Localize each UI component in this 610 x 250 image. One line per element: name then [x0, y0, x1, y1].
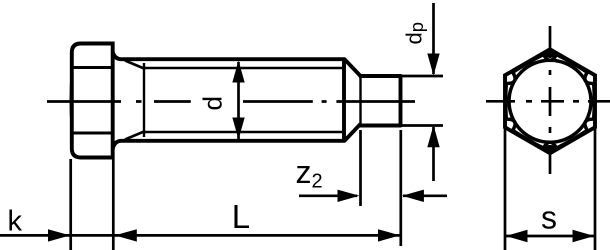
dp extension line bottom — [402, 124, 443, 127]
s arrow right-pointing — [573, 230, 595, 242]
dog point bottom line — [359, 124, 402, 128]
fillet head to shank bottom / outer line bottom — [113, 141, 345, 149]
head facet line lower — [72, 132, 113, 135]
svg-text:L: L — [232, 198, 250, 235]
hex view horizontal center line — [486, 100, 610, 103]
z2 dimension shaft left — [299, 194, 357, 197]
L arrow right-pointing — [378, 229, 400, 241]
dp extension line top — [402, 75, 443, 78]
dp dimension line upper — [432, 3, 435, 74]
dp dimension line lower — [432, 127, 435, 181]
k extension line right — [112, 159, 115, 250]
dog point junction vertical — [359, 76, 361, 126]
label dp — [402, 22, 428, 45]
hex head side view outline — [72, 44, 113, 158]
svg-text:dp: dp — [402, 22, 428, 45]
thread root line bottom — [144, 131, 344, 133]
dp arrow down — [427, 54, 439, 76]
L arrow left-pointing — [115, 229, 137, 241]
head middle facet arc — [71, 68, 72, 134]
svg-text:d: d — [197, 96, 227, 110]
z2 dimension shaft right — [403, 194, 447, 197]
s dimension line — [506, 235, 594, 238]
thread runout diagonal bottom — [125, 132, 144, 140]
s arrow left-pointing — [506, 230, 528, 242]
svg-text:s: s — [541, 199, 557, 235]
thread runout diagonal top — [125, 61, 144, 69]
hex view vertical center line — [549, 26, 552, 174]
k arrow right-pointing — [48, 229, 70, 241]
dog point top line — [359, 74, 402, 78]
thread end vertical — [342, 58, 346, 143]
head facet line upper — [72, 66, 113, 69]
fillet head to shank top — [113, 52, 345, 59]
z2 / L extension line right — [399, 130, 402, 246]
s extension line right — [594, 128, 597, 250]
s extension line left — [504, 128, 507, 250]
chamfer wavy ring — [506, 55, 595, 149]
hexagon end view — [505, 49, 595, 153]
thread start vertical — [143, 63, 145, 137]
dp arrow up — [427, 125, 439, 147]
svg-text:k: k — [8, 206, 23, 238]
bolt end vertical — [399, 75, 403, 128]
hex top vertex cap — [543, 49, 557, 57]
main center line — [47, 100, 415, 103]
head upper facet arc — [70, 55, 73, 68]
d dimension arrow down — [232, 118, 244, 140]
thread root line top — [144, 67, 344, 69]
taper to dog point bottom — [345, 124, 361, 141]
chamfer circle — [509, 60, 591, 142]
k extension line left — [69, 159, 72, 250]
z2 arrow left-pointing — [402, 190, 424, 202]
k/L dimension line — [0, 234, 400, 237]
taper to dog point top — [345, 59, 361, 76]
d dimension line — [237, 62, 240, 139]
hex bottom vertex cap — [543, 145, 557, 153]
d dimension arrow up — [232, 61, 244, 83]
z2 arrow right-pointing — [338, 190, 360, 202]
z2 extension line left — [359, 130, 362, 206]
head lower facet arc — [70, 133, 73, 146]
